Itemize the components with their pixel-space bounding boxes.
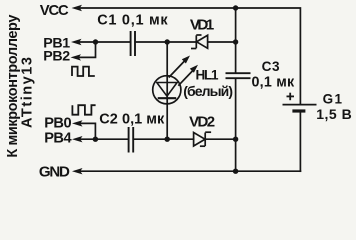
label: to microcontroller ATtiny13 (rotated) — [5, 15, 36, 158]
svg-text:HL1: HL1 — [196, 68, 219, 83]
wire main vertical bus lower (C3 to GND rail) — [235, 79, 237, 171]
svg-text:PB0: PB0 — [44, 115, 71, 131]
node PB0/PB4 junction — [93, 137, 98, 142]
wire C2 right plate to VD2 anode — [134, 138, 194, 140]
svg-text:VD2: VD2 — [189, 113, 215, 130]
wire LED branch vertical (node A to node B) — [166, 42, 168, 139]
svg-text:PB4: PB4 — [44, 130, 72, 146]
arrow PB1 — [71, 39, 82, 45]
battery G1 plus sign — [287, 93, 295, 101]
node B (C2/VD2/LED junction) — [165, 137, 170, 142]
wire VD2 cathode to main bus — [205, 138, 235, 140]
LED HL1 cathode bar — [158, 97, 177, 99]
wire PB0 branch (down to PB4 node) — [80, 123, 96, 139]
LED HL1 circle — [153, 76, 181, 104]
svg-text:VD1: VD1 — [190, 17, 215, 34]
svg-text:C3: C3 — [262, 59, 280, 74]
wire battery negative to GND rail — [299, 113, 301, 172]
diode VD1 (Schottky, cathode left) — [191, 35, 208, 49]
wire PB4 row (to C2 left plate) — [80, 138, 128, 140]
capacitor C2 plates — [129, 127, 134, 153]
waveform symbol at PB2 (meander, starts low) — [72, 67, 95, 76]
wire VCC rail (top, to battery +) — [79, 8, 300, 104]
node GND/main bus junction — [233, 169, 238, 174]
arrow PB0 — [72, 120, 83, 126]
svg-text:VCC: VCC — [40, 3, 69, 19]
wire VD1 anode to main bus — [208, 41, 235, 43]
node VD1/main bus junction — [233, 39, 238, 44]
svg-text:1,5 В: 1,5 В — [316, 106, 352, 122]
battery G1 negative plate — [292, 109, 305, 112]
arrow GND — [72, 168, 83, 174]
capacitor C1 plates — [131, 31, 135, 56]
svg-text:ATtiny13: ATtiny13 — [20, 57, 36, 128]
wire main vertical bus upper (VCC to C3) — [235, 8, 237, 72]
LED light arrow 2 — [178, 65, 198, 86]
LED HL1 triangle — [157, 83, 177, 97]
svg-text:0,1 мк: 0,1 мк — [252, 75, 296, 91]
wire PB1 row (to C1 left plate) — [79, 41, 130, 43]
capacitor C3 plates — [226, 73, 251, 78]
svg-text:GND: GND — [39, 164, 70, 181]
wire GND rail (bottom) — [80, 170, 301, 172]
wire C1 right plate to VD1 cathode — [136, 41, 196, 43]
battery G1 positive plate — [283, 104, 317, 106]
svg-text:C2 0,1 мк: C2 0,1 мк — [99, 112, 165, 128]
arrow PB2 — [71, 54, 82, 60]
wire PB2 branch (up to PB1 node) — [79, 42, 96, 57]
arrow PB4 — [72, 136, 83, 142]
node PB1/PB2 junction — [93, 39, 98, 44]
svg-text:C1 0,1 мк: C1 0,1 мк — [97, 13, 168, 29]
svg-text:G1: G1 — [323, 91, 343, 106]
arrow VCC — [72, 5, 83, 11]
diode VD2 (Schottky, cathode right) — [194, 132, 212, 146]
svg-text:(белый): (белый) — [183, 83, 233, 99]
node A (C1/VD1/LED junction) — [165, 39, 170, 44]
waveform symbol at PB0 (meander, starts high) — [72, 105, 95, 115]
LED light arrow 1 — [169, 56, 190, 78]
node VD2/main bus junction — [233, 137, 238, 142]
node VCC/main bus junction — [233, 5, 238, 10]
svg-text:PB2: PB2 — [43, 49, 70, 65]
